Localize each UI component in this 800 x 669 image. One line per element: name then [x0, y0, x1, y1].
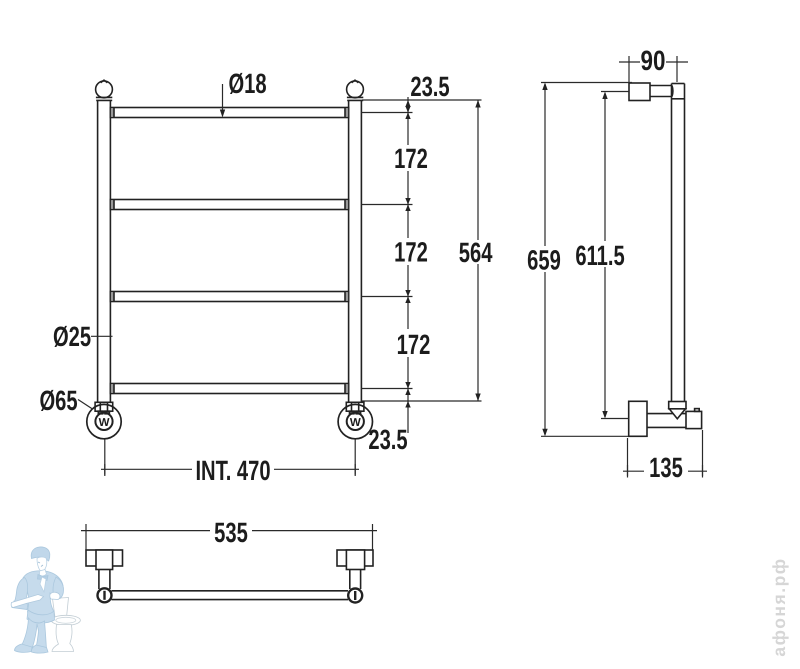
left post cap ball: [96, 81, 113, 98]
rail bar: [112, 591, 349, 600]
right boss: [346, 550, 364, 570]
toilet bowl rim: [51, 615, 80, 625]
ext 90 right: [676, 68, 678, 82]
toilet tank: [53, 598, 69, 618]
right end block: [686, 411, 702, 428]
ext 535 right: [372, 537, 374, 550]
elbow joint curve: [671, 86, 674, 97]
face: [37, 557, 47, 571]
svg-text:W: W: [350, 417, 361, 429]
ext line bar2 center: [362, 204, 413, 206]
svg-text:90: 90: [641, 45, 666, 76]
beret hat: [31, 547, 50, 561]
svg-text:172: 172: [394, 143, 428, 174]
ext 535 left: [85, 537, 87, 550]
dim line 564 x478: [477, 100, 479, 401]
shoe right: [31, 645, 48, 653]
dim line INT 470: [101, 468, 192, 470]
dim line chain x408: [407, 97, 409, 433]
bar 3: [110, 292, 348, 302]
ext line bar1 center: [362, 112, 413, 114]
left post P1: [98, 101, 111, 402]
toilet pedestal: [52, 625, 74, 652]
svg-text:INT. 470: INT. 470: [195, 455, 270, 486]
dim line 659: [544, 84, 546, 246]
shoe left: [15, 644, 33, 652]
ext line bar4 center: [362, 388, 413, 390]
left flange: [86, 550, 123, 566]
ext bottom 611.5: [601, 418, 629, 420]
right screw head: [348, 589, 362, 603]
svg-text:23.5: 23.5: [368, 424, 407, 455]
hips: [27, 610, 55, 623]
left wall-mount outer circle: [87, 404, 121, 438]
bar 1: [110, 108, 348, 118]
tick left 90: [628, 56, 630, 68]
left arm upper: [14, 578, 28, 608]
svg-text:172: 172: [394, 237, 428, 268]
right wall-mount outer circle: [338, 404, 372, 438]
ext 90 left: [628, 68, 630, 82]
ext 135 left: [627, 438, 629, 476]
valve cone: [669, 402, 686, 419]
right wall-mount inner circle: [347, 413, 364, 430]
svg-text:23.5: 23.5: [410, 71, 449, 102]
bar 2: [110, 200, 348, 210]
svg-text:611.5: 611.5: [575, 240, 624, 271]
bottom arm tube: [647, 414, 686, 428]
right neck: [350, 570, 361, 590]
right post P2: [349, 101, 362, 402]
right flange: [337, 550, 373, 566]
legs: [21, 618, 47, 650]
right hand glove on tank: [50, 592, 60, 599]
arrows on chain dim line: [405, 100, 480, 408]
leader for diameter 65: [78, 400, 93, 410]
svg-text:Ø25: Ø25: [53, 321, 91, 352]
ext line bar3 center: [362, 296, 413, 298]
svg-text:Ø18: Ø18: [228, 68, 266, 99]
svg-text:афоня.рф: афоня.рф: [769, 557, 789, 656]
left neck: [99, 570, 110, 590]
left wall-mount block: [95, 402, 113, 414]
right arm: [53, 577, 64, 599]
ext top 659: [541, 82, 632, 84]
left post cap collar: [96, 97, 112, 100]
ext top 611.5: [601, 91, 629, 93]
tick 135 right: [702, 465, 704, 478]
left wall-mount inner circle: [95, 413, 112, 430]
svg-text:135: 135: [649, 452, 683, 483]
plumber jacket torso: [12, 571, 64, 653]
ext lines for INT 470: [101, 440, 359, 477]
dim line 611.5: [604, 94, 606, 242]
dim 90 line: [619, 61, 640, 63]
top arm tube: [650, 86, 672, 97]
svg-text:172: 172: [397, 329, 431, 360]
left boss: [96, 550, 113, 570]
vertical pipe: [672, 84, 685, 402]
tick 135 left: [627, 465, 629, 478]
ext line bottom reference y401: [362, 400, 482, 402]
pipe wrench in hand: [11, 595, 43, 608]
svg-text:W: W: [99, 417, 110, 429]
svg-text:659: 659: [527, 245, 561, 276]
dim 535: [81, 524, 377, 550]
left screw head: [98, 588, 112, 602]
left forearm to hand: [12, 601, 28, 610]
svg-text:Ø65: Ø65: [39, 385, 77, 416]
small nub on block: [695, 409, 700, 412]
bottom wall plate: [629, 401, 647, 436]
dim line 135: [623, 470, 644, 472]
arrows 659 and 611.5: [542, 83, 607, 437]
right post cap collar: [347, 97, 363, 100]
arrows on 564 dim line: [475, 100, 480, 108]
bar 4: [110, 384, 348, 394]
right wall-mount block: [346, 402, 364, 414]
ext line top reference y100: [362, 99, 482, 101]
ext bottom 659: [541, 435, 629, 437]
ext 135 right: [702, 430, 704, 476]
ticks INT470: [104, 464, 106, 475]
tick 535 left: [85, 524, 87, 537]
ear nose marks: [38, 562, 43, 567]
elbow bottom edge: [672, 98, 685, 100]
shirt front: [40, 577, 46, 592]
leader for diameter 18: [220, 84, 225, 118]
neck and bow tie: [40, 570, 47, 577]
plumber watermark: [11, 547, 80, 653]
svg-text:564: 564: [459, 237, 493, 268]
tick 535 right: [372, 524, 374, 537]
right post cap ball: [347, 81, 364, 98]
svg-text:535: 535: [214, 517, 248, 548]
leader for diameter 25: [91, 335, 113, 337]
tick right 90: [676, 56, 678, 68]
top wall bracket: [629, 83, 650, 101]
